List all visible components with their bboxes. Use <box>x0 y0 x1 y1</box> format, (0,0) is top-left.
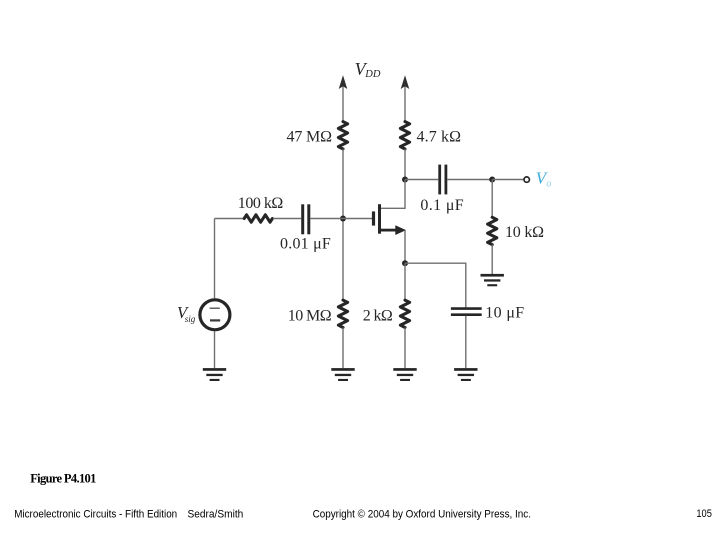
ground under 10M <box>331 368 354 381</box>
ground under 2k <box>393 368 416 381</box>
wire right rail 4.7k to drain node <box>404 149 406 180</box>
label 10 uF <box>485 304 524 321</box>
svg-text:2 kΩ: 2 kΩ <box>363 307 393 324</box>
wire source down to source node <box>404 230 406 263</box>
svg-text:o: o <box>546 179 551 190</box>
ground under vsig <box>203 368 226 381</box>
label 0.01 uF <box>280 236 331 253</box>
node drain junction dot <box>402 177 408 183</box>
node output junction dot <box>489 177 495 183</box>
ground under 10k <box>481 274 504 286</box>
resistor 10 MOhm <box>338 300 347 327</box>
capacitor 0.1 uF <box>440 165 446 195</box>
svg-text:10 MΩ: 10 MΩ <box>288 307 332 324</box>
capacitor 0.01 uF <box>303 204 309 234</box>
wire input cap to gate node <box>310 218 343 220</box>
svg-text:0.1 μF: 0.1 μF <box>420 197 463 214</box>
svg-text:105: 105 <box>696 508 712 520</box>
label 10 kOhm <box>505 224 544 241</box>
source Vsig circle <box>200 300 230 330</box>
svg-text:4.7 kΩ: 4.7 kΩ <box>417 129 462 146</box>
label Vsig <box>177 303 196 324</box>
transistor Q1 channel bar <box>378 204 381 234</box>
node source junction dot <box>402 260 408 266</box>
resistor 10 kOhm <box>488 217 497 244</box>
label 2 kOhm <box>363 307 393 324</box>
label Vo <box>536 169 552 190</box>
wire output node to 10k <box>491 180 493 218</box>
power VDD arrow right rail <box>401 75 410 122</box>
wire source node to 2k <box>404 263 406 300</box>
wire 10k to ground <box>491 245 493 274</box>
footer book title <box>14 508 177 520</box>
resistor 2 kOhm <box>400 300 409 327</box>
svg-text:Microelectronic Circuits - Fif: Microelectronic Circuits - Fifth Edition <box>14 508 177 520</box>
wire left rail gate node to 10M <box>342 219 344 301</box>
wire left rail 47M to gate node <box>342 149 344 219</box>
svg-text:Sedra/Smith: Sedra/Smith <box>188 508 244 520</box>
power VDD arrow left rail <box>339 75 348 122</box>
transistor Q1 source lead with arrow <box>381 225 407 235</box>
label 47 MOhm <box>287 129 333 146</box>
svg-text:10 kΩ: 10 kΩ <box>505 224 544 241</box>
svg-text:47 MΩ: 47 MΩ <box>287 129 333 146</box>
wire 100k to input cap <box>273 218 301 220</box>
ground under 10uF <box>454 368 477 381</box>
wire vsig bottom lead <box>214 331 216 368</box>
wire source node to bypass cap <box>405 263 466 307</box>
svg-text:10 μF: 10 μF <box>485 304 524 321</box>
footer page number <box>696 508 712 520</box>
wire output node to terminal <box>492 179 523 181</box>
wire vsig top lead <box>214 219 216 299</box>
resistor 47 MOhm <box>338 122 347 149</box>
label 10 MOhm <box>288 307 332 324</box>
svg-text:DD: DD <box>364 69 381 80</box>
wire 2k to ground <box>404 328 406 369</box>
terminal Vo open circle <box>524 177 529 182</box>
svg-text:Figure P4.101: Figure P4.101 <box>30 472 96 486</box>
wire drain node down to drain lead <box>380 180 405 209</box>
wire input top from vsig corner to 100k <box>215 218 244 220</box>
footer authors <box>188 508 244 520</box>
wire output cap to output node <box>447 179 492 181</box>
capacitor 10 uF <box>451 309 482 315</box>
label 0.1 uF <box>420 197 463 214</box>
wire drain node to output cap <box>405 179 438 181</box>
wire 10uF to ground <box>465 316 467 368</box>
svg-text:Copyright © 2004 by Oxford Uni: Copyright © 2004 by Oxford University Pr… <box>313 508 531 520</box>
footer copyright <box>313 508 531 520</box>
caption Figure P4.101 <box>30 472 96 486</box>
svg-text:0.01 μF: 0.01 μF <box>280 236 331 253</box>
transistor Q1 gate lead wire <box>343 218 373 220</box>
label 100 kOhm <box>238 195 284 212</box>
wire 10M to ground <box>342 328 344 369</box>
resistor 4.7 kOhm <box>400 122 409 149</box>
svg-text:sig: sig <box>185 314 196 324</box>
transistor Q1 gate bar <box>372 211 375 225</box>
svg-text:100 kΩ: 100 kΩ <box>238 195 284 212</box>
label 4.7 kOhm <box>417 129 462 146</box>
resistor 100 kOhm <box>244 215 272 222</box>
label VDD <box>355 59 381 80</box>
node gate junction dot <box>340 216 346 222</box>
